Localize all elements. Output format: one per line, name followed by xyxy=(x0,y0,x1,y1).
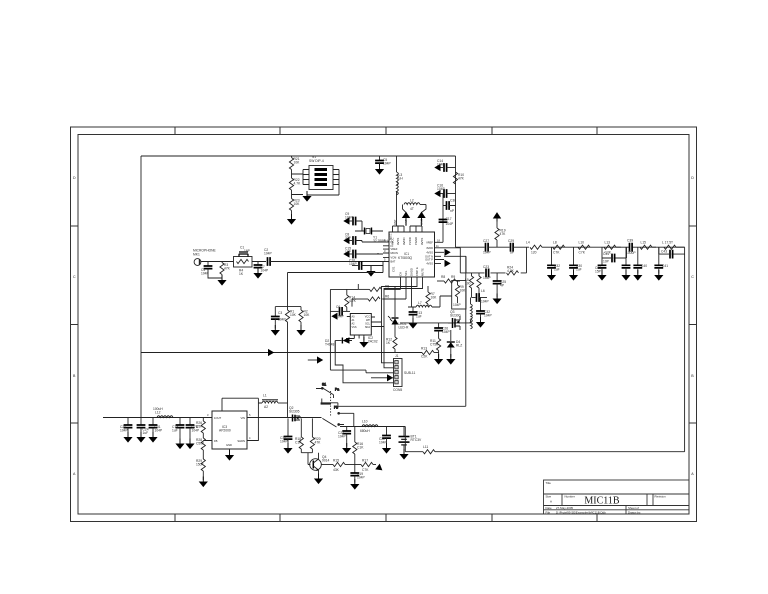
zone tick bottom 2 xyxy=(279,514,281,522)
svg-text:1000P: 1000P xyxy=(626,251,636,255)
svg-text:1uF: 1uF xyxy=(554,267,560,271)
svg-text:104P: 104P xyxy=(280,439,289,443)
ground under C21 xyxy=(342,443,351,454)
svg-text:MIC11B: MIC11B xyxy=(584,496,620,507)
svg-text:L7: L7 xyxy=(418,301,422,305)
svg-text:ANT: ANT xyxy=(404,219,408,225)
svg-text:10P: 10P xyxy=(603,260,610,264)
capacitor C7B xyxy=(186,418,200,443)
resistor R5 xyxy=(358,285,389,292)
svg-text:150K: 150K xyxy=(196,462,205,466)
svg-text:C34: C34 xyxy=(603,252,609,256)
ground under C10 xyxy=(366,266,375,277)
ground under IC2 xyxy=(359,337,368,348)
ground under C19b xyxy=(283,443,292,454)
capacitor C8 with net arrow xyxy=(343,233,383,245)
svg-text:R8: R8 xyxy=(441,275,445,279)
zone tick bottom 4 xyxy=(491,514,493,522)
battery BT1 xyxy=(399,427,423,453)
switch S1 SW DIP-4 xyxy=(307,155,339,195)
capacitor C15 with net arrow xyxy=(343,247,383,259)
svg-text:C: C xyxy=(73,275,76,279)
power arrow R19 xyxy=(493,212,501,228)
svg-text:104P: 104P xyxy=(383,161,392,165)
svg-text:AVCC: AVCC xyxy=(390,237,394,245)
svg-text:C5K: C5K xyxy=(196,424,203,428)
capacitor C23 xyxy=(483,265,492,280)
wire net y352 xyxy=(141,352,422,354)
svg-text:KT0803Q: KT0803Q xyxy=(398,256,413,260)
svg-text:AVDD: AVDD xyxy=(402,237,406,245)
svg-text:4VSS: 4VSS xyxy=(426,261,433,265)
zone tick bottom 3 xyxy=(385,514,387,522)
inductor L13 xyxy=(604,241,621,255)
svg-text:RTC3V: RTC3V xyxy=(411,438,423,442)
IC1 top pins xyxy=(393,226,423,232)
svg-text:MICIN: MICIN xyxy=(391,251,398,255)
svg-text:CON5: CON5 xyxy=(393,388,402,392)
svg-text:L1: L1 xyxy=(263,394,267,398)
svg-text:104P: 104P xyxy=(453,303,462,307)
svg-text:104P: 104P xyxy=(357,475,366,479)
wire vcc vertical right of IC1 xyxy=(455,156,457,247)
svg-text:MK1: MK1 xyxy=(193,253,200,257)
resistor R16 vertical above junction xyxy=(353,427,365,465)
wire taps to DIP switch xyxy=(292,170,310,195)
ground under R23 xyxy=(287,214,296,225)
svg-text:PGND: PGND xyxy=(414,237,418,245)
svg-text:FB: FB xyxy=(214,439,218,443)
svg-text:24C02: 24C02 xyxy=(368,339,378,343)
capacitor C29 xyxy=(508,239,529,255)
svg-text:L10: L10 xyxy=(362,420,368,424)
capacitor C13 xyxy=(409,307,423,322)
module box R9 C28 xyxy=(452,281,466,310)
svg-text:Title: Title xyxy=(546,481,552,485)
svg-text:Number: Number xyxy=(565,495,575,499)
resistor R12 xyxy=(386,337,397,353)
svg-text:Drawn by:: Drawn by: xyxy=(628,510,641,514)
svg-text:104P: 104P xyxy=(349,262,358,266)
svg-text:VREF: VREF xyxy=(426,240,433,244)
capacitor C7A xyxy=(172,418,184,443)
svg-text:104P: 104P xyxy=(261,268,270,272)
svg-text:D:\Protel99 SE\Examples\MIC11B: D:\Protel99 SE\Examples\MIC11B.Ddb xyxy=(556,510,606,514)
resistor R8 xyxy=(437,275,460,283)
svg-text:C50K: C50K xyxy=(196,441,205,445)
resistor R4 with C1 parallel xyxy=(234,246,253,277)
wire RF chain xyxy=(553,246,630,248)
resistor R7 xyxy=(426,286,437,307)
inductor L5b vertical xyxy=(471,298,473,329)
resistor R21 xyxy=(289,156,300,170)
wire out loop second vertical xyxy=(441,248,466,273)
svg-text:1OUT: 1OUT xyxy=(214,416,222,420)
ground under C25 xyxy=(493,294,502,305)
resistor R27 divider xyxy=(196,433,205,459)
svg-text:10K: 10K xyxy=(294,202,301,206)
svg-text:4T: 4T xyxy=(410,207,414,211)
svg-text:SI2300: SI2300 xyxy=(450,313,461,317)
wire box around IC2 xyxy=(330,284,393,373)
ground under C38 xyxy=(547,270,556,281)
svg-text:680uH: 680uH xyxy=(360,429,370,433)
svg-text:T4148: T4148 xyxy=(325,342,335,346)
svg-text:4VDD: 4VDD xyxy=(426,246,433,250)
svg-text:GND: GND xyxy=(226,443,232,447)
resistor R13 at end of y352 net xyxy=(421,347,439,359)
IC1 left pins xyxy=(383,242,389,262)
svg-text:100uH: 100uH xyxy=(153,407,163,411)
svg-text:C36: C36 xyxy=(450,199,456,203)
IC1 bottom pins xyxy=(401,277,423,284)
inductor L12 xyxy=(153,407,177,418)
resistor R20 xyxy=(310,418,321,452)
IC3 regulator xyxy=(205,411,322,454)
net arrow RF out P xyxy=(445,260,451,267)
capacitor C27 xyxy=(483,239,510,255)
svg-text:104P: 104P xyxy=(483,251,492,255)
switch S2 pole 2 xyxy=(322,406,353,428)
resistor R29 divider xyxy=(196,459,205,480)
svg-text:104P: 104P xyxy=(484,313,493,317)
svg-text:SCL: SCL xyxy=(404,270,408,276)
svg-text:AVSS: AVSS xyxy=(420,238,424,245)
power arrow L2 left xyxy=(402,212,410,226)
wire VCM rail to x287 xyxy=(288,262,384,273)
ground under Q4 xyxy=(314,474,323,485)
svg-text:104P: 104P xyxy=(120,428,129,432)
inductor L8 xyxy=(553,241,565,255)
svg-text:47K: 47K xyxy=(458,176,465,180)
resistor R15 xyxy=(333,459,355,473)
ground mic bias xyxy=(217,275,226,286)
svg-text:AP2000: AP2000 xyxy=(219,429,231,433)
diode D2 xyxy=(325,337,352,352)
inductor L6 xyxy=(477,273,485,298)
svg-text:BAT: BAT xyxy=(391,260,396,264)
svg-text:SDA: SDA xyxy=(365,326,370,329)
resistor R19 xyxy=(495,228,506,247)
capacitor C32 xyxy=(476,298,492,321)
svg-text:10K: 10K xyxy=(294,160,301,164)
svg-text:MUTE: MUTE xyxy=(420,268,424,276)
svg-text:SHDN: SHDN xyxy=(237,439,245,443)
svg-text:R13: R13 xyxy=(421,347,427,351)
svg-text:ANT: ANT xyxy=(393,219,397,225)
inductor L2 xyxy=(403,199,427,217)
svg-text:VIN: VIN xyxy=(241,416,246,420)
svg-text:L 17.5T: L 17.5T xyxy=(662,241,673,245)
ground under C7A xyxy=(175,439,184,450)
wire out loop path B xyxy=(444,247,527,273)
svg-text:L12: L12 xyxy=(155,411,161,415)
zone tick right 3 xyxy=(689,422,697,424)
ground under C31 xyxy=(148,432,157,443)
svg-text:120: 120 xyxy=(531,251,537,255)
inductor L15 xyxy=(640,241,656,250)
svg-text:1uF: 1uF xyxy=(172,428,178,432)
svg-text:C27: C27 xyxy=(483,239,489,243)
svg-text:L13: L13 xyxy=(605,241,611,245)
svg-text:104P: 104P xyxy=(481,300,490,304)
capacitor C9 with net arrow xyxy=(343,212,362,231)
capacitor C5 xyxy=(375,156,391,167)
zone tick top 4 xyxy=(491,127,493,135)
wire left border vertical xyxy=(140,156,142,418)
wire bundle pin e xyxy=(384,284,423,368)
resistor R3 xyxy=(220,262,231,279)
svg-text:10K: 10K xyxy=(460,288,467,292)
wire pin c to L7 row xyxy=(408,284,416,307)
resistor R10 xyxy=(453,172,464,184)
transistor Q4 xyxy=(310,453,330,477)
svg-text:SW DIP-4: SW DIP-4 xyxy=(309,159,324,163)
inductor L7 xyxy=(416,296,452,307)
svg-text:C7K: C7K xyxy=(579,251,586,255)
svg-text:104P: 104P xyxy=(437,162,446,166)
power arrow L2 right xyxy=(417,212,425,226)
resistor R23 xyxy=(289,190,300,214)
svg-text:C40: C40 xyxy=(641,264,647,268)
svg-text:1uF: 1uF xyxy=(143,431,149,435)
wire RF top line xyxy=(456,246,485,248)
svg-text:C: C xyxy=(691,275,694,279)
svg-text:9014: 9014 xyxy=(322,458,330,462)
ground under R11 xyxy=(434,354,443,365)
svg-text:47K: 47K xyxy=(315,440,322,444)
svg-text:4.7K: 4.7K xyxy=(294,181,302,185)
svg-text:C17: C17 xyxy=(446,217,452,221)
title block xyxy=(544,480,690,514)
ground under C30 xyxy=(569,270,578,281)
zone tick bottom 5 xyxy=(596,514,598,522)
net arrow C6 xyxy=(331,313,337,320)
ground under C42 xyxy=(654,270,663,281)
svg-text:104P: 104P xyxy=(192,428,201,432)
capacitor C30 shunt xyxy=(569,247,582,273)
inductor L10 xyxy=(360,420,378,434)
svg-text:C75K: C75K xyxy=(430,342,439,346)
capacitor C26 xyxy=(434,323,450,339)
capacitor C2 xyxy=(264,248,383,266)
wire battery to antenna row xyxy=(405,427,423,452)
mosfet Q2 SI2305 xyxy=(288,406,301,422)
svg-text:L6: L6 xyxy=(481,289,485,293)
capacitor C21 xyxy=(338,427,351,447)
svg-text:A2: A2 xyxy=(264,405,268,409)
ground under R2 xyxy=(296,325,305,336)
ground under C7B xyxy=(185,439,194,450)
inductor L11 xyxy=(423,445,685,454)
zone tick bottom 1 xyxy=(174,514,176,522)
inductor L3 xyxy=(397,156,404,226)
zone tick top 3 xyxy=(385,127,387,135)
capacitor C33 shunt xyxy=(595,258,606,274)
svg-text:J1: J1 xyxy=(395,354,399,358)
svg-text:SUB-11: SUB-11 xyxy=(404,371,415,375)
zone tick left 3 xyxy=(71,422,79,424)
wire top rail xyxy=(141,155,456,157)
svg-text:Revision: Revision xyxy=(655,495,666,499)
svg-text:L11: L11 xyxy=(423,445,428,449)
svg-text:10K: 10K xyxy=(304,313,311,317)
ground under C45 xyxy=(382,443,391,454)
svg-text:File: File xyxy=(546,510,551,514)
ground under IC3 xyxy=(225,450,234,461)
wire Q4 base net xyxy=(301,453,312,465)
net arrow Q4 out xyxy=(375,464,384,473)
svg-text:1uF: 1uF xyxy=(576,267,582,271)
svg-text:C1K: C1K xyxy=(357,445,364,449)
capacitor C44 xyxy=(472,293,490,303)
ground under C13 xyxy=(408,318,417,329)
zone tick left 2 xyxy=(71,324,79,326)
ground under divider xyxy=(199,477,208,488)
wire J1 pin5 step xyxy=(335,341,393,383)
IC1 KT0803 xyxy=(383,226,444,284)
svg-text:104P: 104P xyxy=(437,187,446,191)
capacitor C45 xyxy=(379,427,391,447)
svg-text:L8: L8 xyxy=(553,241,557,245)
capacitor C14 net arrow pair xyxy=(434,159,455,172)
zone tick top 5 xyxy=(596,127,598,135)
svg-text:Pa: Pa xyxy=(335,388,339,392)
svg-text:4VSS: 4VSS xyxy=(426,250,433,254)
resistor R1 xyxy=(285,310,296,323)
wire antenna drop xyxy=(684,247,686,452)
zone tick top 2 xyxy=(279,127,281,135)
resistor R17 xyxy=(355,459,376,473)
zone tick right 2 xyxy=(689,324,697,326)
resistor R24 xyxy=(507,266,519,276)
svg-text:RLZ: RLZ xyxy=(456,343,462,347)
svg-text:104P: 104P xyxy=(483,276,492,280)
svg-text:Date: Date xyxy=(546,506,552,510)
svg-text:C41: C41 xyxy=(662,264,668,268)
capacitor C4 xyxy=(201,262,222,279)
svg-text:104P: 104P xyxy=(446,222,455,226)
svg-text:47K: 47K xyxy=(224,266,231,270)
sheet inner border xyxy=(78,135,689,515)
capacitor C39 series xyxy=(626,239,636,256)
inductor L16 xyxy=(662,241,685,250)
svg-text:27-May-2005: 27-May-2005 xyxy=(556,506,573,510)
LED1 xyxy=(388,287,409,338)
capacitor C40 shunt xyxy=(633,247,647,273)
ground under C32 xyxy=(476,317,485,328)
resistor R11 xyxy=(430,339,441,358)
IC1 right pins xyxy=(435,242,445,263)
ground under C5 xyxy=(375,164,384,175)
capacitor C42 shunt xyxy=(654,247,668,273)
capacitor C20 xyxy=(120,418,132,436)
ground under C24 xyxy=(136,432,145,443)
capacitor C41 bridge xyxy=(659,247,685,258)
svg-text:104P: 104P xyxy=(264,251,273,255)
ground under C19 xyxy=(350,479,359,490)
svg-text:Sheet of: Sheet of xyxy=(628,506,639,510)
capacitor C16 net arrow pair xyxy=(434,184,455,198)
svg-text:16P: 16P xyxy=(244,249,251,253)
svg-text:GND: GND xyxy=(420,219,424,225)
svg-text:CS1: CS1 xyxy=(392,266,396,272)
resistor R2 xyxy=(299,307,310,329)
capacitor C25 xyxy=(493,273,507,297)
svg-text:10K: 10K xyxy=(290,313,297,317)
microphone MK1 xyxy=(193,249,234,266)
mosfet Q3 SI2300 xyxy=(448,310,461,330)
wire vertical x287.5 xyxy=(275,273,301,418)
svg-text:1uF: 1uF xyxy=(416,314,422,318)
capacitor C6 xyxy=(330,305,350,319)
zone tick top 1 xyxy=(174,127,176,135)
capacitor C38 shunt xyxy=(547,247,560,273)
wire boost loop over IC3 xyxy=(222,398,262,440)
switch S2 pole 1 xyxy=(316,383,339,407)
svg-text:C29: C29 xyxy=(508,239,514,243)
svg-text:33P: 33P xyxy=(345,236,352,240)
capacitor C19b xyxy=(280,418,292,446)
svg-text:C3: C3 xyxy=(278,311,282,315)
sheet outer border xyxy=(71,127,697,522)
svg-text:C2K: C2K xyxy=(421,355,428,359)
wire inner net vertical x466 xyxy=(465,256,467,406)
svg-text:4.7K: 4.7K xyxy=(507,269,515,273)
ground under C20 xyxy=(123,432,132,443)
capacitor C3 xyxy=(271,311,287,329)
wire 3V rail xyxy=(103,417,205,419)
svg-text:AVSS: AVSS xyxy=(396,238,400,245)
svg-text:C39: C39 xyxy=(627,239,633,243)
IC1 pin name texture xyxy=(390,219,424,276)
svg-text:104P: 104P xyxy=(442,330,451,334)
zone tick right 1 xyxy=(689,225,697,227)
ground under C33 xyxy=(597,270,606,281)
capacitor C7 xyxy=(252,262,269,273)
svg-text:Pb: Pb xyxy=(334,406,338,410)
svg-text:A: A xyxy=(550,500,552,504)
svg-text:10K: 10K xyxy=(431,295,438,299)
svg-text:C6: C6 xyxy=(336,305,340,309)
wire pole1 out to right net xyxy=(338,405,466,407)
svg-text:D: D xyxy=(73,176,76,180)
inductor L5 xyxy=(465,273,474,298)
net arrow left of IC2 xyxy=(308,356,323,363)
svg-text:C1K: C1K xyxy=(295,440,302,444)
svg-text:R17: R17 xyxy=(362,459,368,463)
svg-text:VSS: VSS xyxy=(352,326,357,329)
svg-text:SI2305: SI2305 xyxy=(289,409,300,413)
resistor R6 xyxy=(352,295,389,307)
svg-text:PVDD: PVDD xyxy=(408,237,412,245)
inductor L10 rf xyxy=(578,241,590,255)
resistor R22 xyxy=(289,170,301,191)
net arrow RF out N xyxy=(445,249,451,256)
svg-text:47K: 47K xyxy=(500,232,507,236)
capacitor C35 shunt xyxy=(622,247,631,273)
svg-text:R9: R9 xyxy=(451,275,455,279)
svg-text:CH: CH xyxy=(398,272,402,276)
svg-text:104P: 104P xyxy=(345,215,354,219)
net arrow on y352 wire xyxy=(268,349,274,356)
ground for switch xyxy=(302,191,311,202)
connector J1 xyxy=(393,354,415,392)
svg-text:L10: L10 xyxy=(579,241,585,245)
svg-text:C23: C23 xyxy=(483,265,489,269)
wire gate net y323 xyxy=(400,322,472,324)
capacitor C36 xyxy=(443,199,456,214)
